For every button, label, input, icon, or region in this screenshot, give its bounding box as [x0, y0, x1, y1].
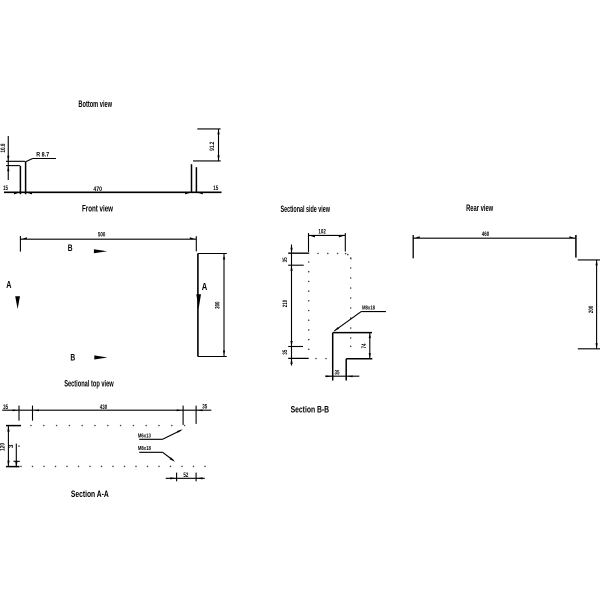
dimension 74 arrow down: [369, 353, 371, 359]
dimension 52 dim line: [166, 477, 205, 479]
dimension 3 arrow: [15, 462, 17, 468]
side view: extension y346: [288, 346, 303, 348]
svg-text:500: 500: [98, 232, 106, 239]
svg-text:460: 460: [482, 231, 490, 238]
notch left vertical: [332, 333, 334, 381]
dimension 3 tick: [14, 460, 20, 462]
leader M6x13 shelf: [139, 438, 162, 440]
dimension 52 arrow left: [170, 477, 176, 479]
svg-text:35: 35: [3, 404, 8, 411]
section marker B bottom arrow: [94, 355, 107, 359]
svg-text:M8x18: M8x18: [362, 305, 376, 311]
svg-text:210: 210: [282, 300, 289, 308]
dimension 10.8 arrow upper: [7, 156, 9, 162]
notch bottom line: [346, 358, 372, 360]
top dims tick 4: [195, 406, 197, 424]
svg-text:B: B: [68, 243, 73, 253]
dimension 300 dim line: [223, 254, 225, 357]
dimension 52 tick left: [176, 473, 178, 482]
bottom line arrow d (15 right): [196, 192, 202, 194]
stack arrow 2: [290, 265, 292, 271]
svg-text:10.8: 10.8: [0, 143, 7, 152]
top dims arrow 2: [33, 409, 39, 411]
stack arrow 3: [290, 341, 292, 347]
side view: top hidden edge dots: [317, 253, 346, 255]
dimension 102 arrow right: [339, 235, 346, 237]
bottom line arrow b (470 left): [26, 192, 32, 194]
svg-text:102: 102: [318, 228, 326, 235]
dimension 35 arrow right: [346, 375, 352, 377]
svg-text:15: 15: [3, 185, 8, 192]
svg-text:R 8.7: R 8.7: [36, 151, 49, 158]
dimension 200 arrow down: [596, 343, 598, 349]
svg-text:Sectional side view: Sectional side view: [281, 204, 331, 214]
top dims arrow 4: [196, 409, 202, 411]
stack arrow 1: [290, 248, 292, 254]
dimension 200 dim line: [596, 260, 598, 349]
svg-text:Sectional top view: Sectional top view: [64, 379, 114, 389]
svg-text:Section B-B: Section B-B: [291, 404, 330, 414]
stack arrow 4: [290, 358, 292, 364]
dimension 300 bottom extension: [198, 356, 227, 358]
top view: bottom edge hidden dots: [20, 466, 206, 468]
rear view left corner tick: [412, 235, 414, 258]
bottom view: right tab line 2: [195, 167, 197, 193]
svg-text:Rear view: Rear view: [466, 203, 494, 213]
dimension 500 arrow right: [190, 237, 197, 239]
side view: bottom hidden edge dots: [315, 358, 327, 360]
top dims arrow 3: [177, 409, 183, 411]
leader M6x13 arrowhead: [177, 429, 183, 433]
svg-text:Front view: Front view: [82, 204, 114, 214]
svg-text:A: A: [6, 280, 11, 291]
dimension 10.8 dim line: [7, 136, 9, 180]
notch right vertical: [345, 359, 347, 381]
dimension 120 arrow down: [7, 461, 9, 467]
dimension 500 arrow left: [20, 237, 27, 239]
dimension 91.2 arrow down: [217, 155, 219, 161]
section marker A right arrow: [196, 294, 201, 309]
top dims arrow 1: [13, 409, 19, 411]
top dims tick 1: [18, 406, 20, 421]
dimension 91.2 dim line: [218, 129, 220, 161]
svg-text:Bottom view: Bottom view: [78, 99, 112, 109]
svg-text:35: 35: [282, 349, 289, 354]
dimension 10.8 arrow lower: [7, 166, 9, 172]
svg-text:430: 430: [100, 404, 108, 411]
dimension 460 arrow right: [569, 236, 576, 238]
side view stack dim line: [291, 245, 293, 366]
dimension 120 arrow up: [7, 426, 9, 432]
dimension 460 arrow left: [413, 236, 420, 238]
dimension 102 dim line: [309, 234, 346, 236]
svg-text:15: 15: [213, 185, 218, 192]
dimension 35 arrow left: [326, 375, 332, 377]
bottom view: left tab line 2: [25, 162, 27, 194]
leader M6x13 diagonal: [163, 430, 181, 439]
side view: top edge solid: [288, 252, 309, 254]
bottom line arrow c (470 right): [185, 192, 191, 194]
bottom view: left tab line 1: [19, 166, 21, 194]
svg-text:Section A-A: Section A-A: [71, 489, 109, 499]
svg-text:52: 52: [183, 472, 188, 479]
section marker B top arrow: [94, 249, 107, 253]
leader M8x18 diagonal (top view): [163, 452, 174, 460]
dimension 10.8 extension line upper: [6, 160, 25, 162]
svg-text:120: 120: [0, 443, 7, 451]
top dims tick 3: [182, 406, 184, 425]
dimension 102 arrow left: [309, 235, 316, 237]
side view: left hidden edge dots: [308, 261, 310, 350]
svg-text:35: 35: [335, 370, 340, 377]
svg-text:3: 3: [8, 444, 15, 448]
side view: extension y265: [288, 264, 304, 266]
notch top line: [333, 332, 372, 334]
dimension 52 tick right: [195, 473, 197, 482]
dimension 102 left tick: [308, 233, 310, 252]
dimension 52 arrow right: [196, 477, 202, 479]
bottom view: bottom edge line: [4, 191, 222, 193]
leader M8x18 arrowhead (top view): [170, 457, 176, 462]
leader M8x18 shelf (top view): [139, 451, 162, 453]
top dims dim line: [2, 409, 211, 411]
top view: top edge solid segment: [6, 425, 21, 427]
side view: right hidden edge dots: [350, 257, 352, 347]
front view right edge: [197, 254, 199, 357]
top view: top edge hidden dots: [30, 425, 185, 427]
side view: bottom edge solid: [288, 357, 309, 359]
svg-text:M8x18: M8x18: [138, 446, 152, 452]
stray hidden dot: [18, 445, 20, 447]
dimension 74 arrow up: [369, 333, 371, 339]
dimension 460 dim line: [413, 237, 576, 239]
svg-text:74: 74: [361, 343, 368, 348]
dimension 10.8 extension line lower: [6, 165, 20, 167]
dimension 200 top extension: [578, 259, 600, 261]
svg-text:200: 200: [588, 305, 595, 313]
dimension 91.2 lower extension: [193, 160, 221, 162]
section marker A left arrow: [15, 296, 20, 309]
dimension 200 arrow up: [596, 260, 598, 266]
dimension 35 bottom dim line: [325, 375, 359, 377]
dimension 3 line: [15, 444, 17, 468]
dimension 500 right tick: [195, 236, 197, 251]
side view: corner diagonal hidden dots: [347, 254, 352, 260]
svg-text:300: 300: [214, 301, 221, 309]
bottom view: right tab line 1: [191, 164, 193, 193]
dimension 300 top extension: [198, 253, 227, 255]
svg-text:B: B: [70, 353, 75, 363]
dimension 500 dim line: [20, 238, 196, 240]
svg-text:470: 470: [93, 186, 102, 193]
rear view right corner edge: [575, 235, 577, 258]
leader M8x18 shelf (side view): [361, 311, 386, 313]
svg-text:35: 35: [202, 403, 207, 410]
dimension 200 bottom extension: [578, 348, 600, 350]
bottom line arrow a (15 left): [14, 192, 20, 194]
leader M8x18 diagonal (side view): [334, 312, 361, 331]
dimension 300 arrow down: [223, 351, 225, 357]
leader R 8.7 shelf: [33, 158, 56, 160]
svg-text:A: A: [202, 282, 208, 293]
top view: bottom edge solid segment: [6, 466, 20, 468]
dimension 74 dim line: [369, 333, 371, 359]
top dims tick 2: [32, 406, 34, 421]
dimension 102 right tick: [344, 233, 346, 251]
dimension 120 dim line: [7, 426, 9, 467]
dimension 91.2 upper extension: [197, 128, 220, 130]
svg-text:91.2: 91.2: [209, 141, 216, 150]
leader R 8.7 diagonal: [25, 159, 33, 163]
dimension 300 arrow up: [223, 254, 225, 260]
leader M8x18 arrowhead (side view): [334, 327, 340, 331]
dimension 500 left tick: [19, 236, 21, 252]
dimension 91.2 arrow up: [217, 129, 219, 135]
svg-text:35: 35: [282, 257, 289, 262]
